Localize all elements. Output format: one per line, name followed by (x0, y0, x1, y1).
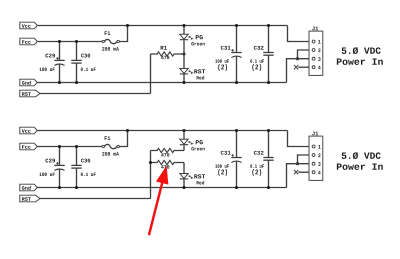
wire J1 pin 2 branch (bot) (298, 155, 312, 164)
junction C30/Fcc (bot) (75, 145, 78, 148)
LED PG green (top) (180, 34, 205, 45)
wire RST rail (bot) (40, 198, 151, 200)
LED RST red (top) (180, 69, 205, 80)
pin 2 of J1 (bot) (312, 154, 315, 157)
LED PG green (bot) (180, 139, 205, 150)
capacitor C32 (top) 0.1 uF (2) (250, 26, 273, 83)
wire RST rail (top) (40, 93, 151, 95)
ground Gnd flag (top) (20, 79, 38, 86)
pin 3 of J1 (bot) (312, 162, 315, 165)
node Vcc flag (bot) (20, 127, 38, 134)
no-connect X on J1 pin 4 (top) (294, 65, 298, 69)
pin 4 of J1 (bot) (312, 171, 315, 174)
junction C29/Gnd (top) (58, 81, 61, 84)
junction C29/Fcc (bot) (58, 145, 61, 148)
junction lower resistor/left leg (bottom) (149, 161, 152, 164)
wire resistors left leg down to RST rail (bottom) (150, 151, 152, 199)
node Fcc flag (top) (20, 38, 38, 45)
junction C31/Gnd (top) (235, 81, 238, 84)
label 5.0 VDC Power In (bot) (337, 152, 383, 170)
junction C32/Vcc (top) (267, 24, 270, 27)
junction fuse/Vcc (bot) (126, 129, 129, 132)
resistor 470 lower (bottom, RST series) (151, 160, 185, 168)
junction pin2/pin3 wire (bot) (296, 162, 299, 165)
wire Gnd up to J1 pin 3 (bot) (287, 164, 312, 188)
junction C32/Gnd (bot) (267, 186, 270, 189)
node Vcc flag (top) (20, 22, 38, 29)
wire fuse output up to Vcc rail (top) (120, 26, 128, 42)
junction C31/Vcc (top) (235, 24, 238, 27)
connector J1 (top) (309, 27, 323, 76)
junction RST-LED/Gnd (bot) (182, 186, 185, 189)
junction pin2/pin3 wire (top) (296, 57, 299, 60)
node RST flag (bot) (20, 195, 40, 202)
junction C30/Gnd (top) (75, 81, 78, 84)
wire Vcc to PG anode (top) (183, 26, 185, 35)
fuse F1 (top) 200 mA (102, 31, 119, 50)
junction PG/Vcc (top) (182, 24, 185, 27)
node Fcc flag (bot) (20, 143, 38, 150)
label 5.0 VDC Power In (top) (337, 47, 383, 65)
wire R1 left leg down to RST rail (top) (150, 54, 152, 94)
pin 1 of J1 (bot) (312, 145, 315, 148)
junction fuse/Vcc (top) (126, 24, 129, 27)
ground Gnd flag (bot) (20, 184, 38, 191)
wire J1 pin 2 branch (top) (298, 50, 312, 59)
wire Vcc rail (top) (37, 25, 287, 27)
junction PG/Vcc (bot) (182, 129, 185, 132)
wire RST cathode to Gnd (top) (183, 74, 185, 83)
junction C32/Gnd (top) (267, 81, 270, 84)
wire node to RST LED anode (top) (183, 54, 185, 69)
node RST flag (top) (20, 90, 40, 97)
capacitor C30 (bot) 0.1 uF (71, 147, 95, 188)
wire lower resistor to RST LED anode (bottom) (183, 163, 185, 174)
red annotation arrow pointing at lower 470 resistor (149, 166, 168, 236)
wire Gnd rail (top) (37, 82, 286, 84)
junction C30/Gnd (bot) (75, 186, 78, 189)
junction C29/Gnd (bot) (58, 186, 61, 189)
junction R1/LED node (top) (182, 52, 185, 55)
pin 2 of J1 (top) (312, 49, 315, 52)
junction C31/Vcc (bot) (235, 129, 238, 132)
wire Fcc rail to fuse (bot) (37, 146, 102, 148)
wire Gnd rail (bot) (37, 187, 286, 189)
junction RST-LED/Gnd (top) (182, 81, 185, 84)
pin 3 of J1 (top) (312, 57, 315, 60)
connector J1 (bot) (309, 132, 323, 181)
capacitor C29 (top) 100 uF polarized (39, 42, 64, 83)
resistor 470 upper (bottom, PG series) (151, 148, 185, 156)
no-connect X on J1 pin 4 (bot) (294, 170, 298, 174)
wire J1 pin 4 stub (bot) (298, 171, 312, 173)
wire RST cathode to Gnd (bot) (183, 179, 185, 188)
junction C30/Fcc (top) (75, 40, 78, 43)
junction C31/Gnd (bot) (235, 186, 238, 189)
pin 4 of J1 (top) (312, 66, 315, 69)
resistor R1 470 (top) (151, 46, 185, 59)
wire PG cathode to node (top) (183, 40, 185, 54)
wire Fcc rail to fuse (top) (37, 41, 102, 43)
wire Vcc rail (bot) (37, 130, 287, 132)
wire fuse output up to Vcc rail (bot) (120, 131, 128, 147)
wire J1 pin 4 stub (top) (298, 66, 312, 68)
fuse F1 (bot) 200 mA (102, 136, 119, 155)
wire PG cathode to upper resistor (bottom) (183, 145, 185, 150)
capacitor C29 (bot) 100 uF polarized (39, 147, 64, 188)
capacitor C31 (bot) 100 uF (2) polarized (215, 131, 241, 188)
junction C29/Fcc (top) (58, 40, 61, 43)
capacitor C31 (top) 100 uF (2) polarized (215, 26, 241, 83)
pin 1 of J1 (top) (312, 40, 315, 43)
wire Vcc down to J1 pin 1 (bot) (288, 131, 312, 147)
capacitor C32 (bot) 0.1 uF (2) (250, 131, 273, 188)
wire Vcc down to J1 pin 1 (top) (288, 26, 312, 42)
LED RST red (bot) (180, 174, 205, 185)
junction C32/Vcc (bot) (267, 129, 270, 132)
wire Gnd up to J1 pin 3 (top) (287, 59, 312, 83)
wire Vcc to PG anode (bot) (183, 131, 185, 140)
capacitor C30 (top) 0.1 uF (71, 42, 95, 83)
